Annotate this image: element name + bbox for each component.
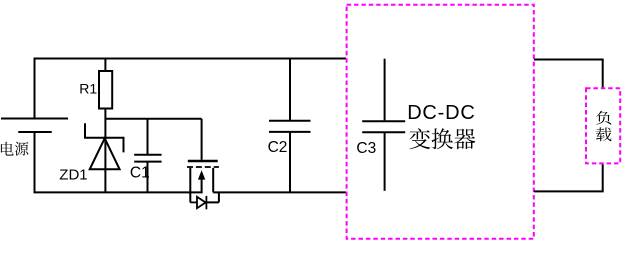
DC-DC converter box U1 [347,5,534,239]
zener diode ZD1 [84,123,125,169]
wire DC-DC output bottom [534,164,604,191]
svg-text:C2: C2 [268,139,288,156]
svg-text:DC-DC: DC-DC [407,102,475,124]
wire branch node to gate [105,118,201,120]
resistor R1 [99,59,112,193]
wire top rail [34,58,347,60]
wire bottom rail left [34,191,203,193]
battery BT 电源 [1,119,68,133]
wire battery top to rail [34,59,36,119]
svg-text:R1: R1 [79,80,97,96]
wire DC-DC output top [534,59,603,88]
capacitor C1 [134,119,161,193]
label 负载 [596,111,612,141]
capacitor C3 [362,59,405,191]
wire battery bottom [34,132,36,192]
svg-text:C3: C3 [356,140,376,157]
svg-text:C1: C1 [130,164,150,181]
label 电源 [1,142,29,156]
svg-text:ZD1: ZD1 [59,167,87,184]
load box 负载 [586,88,620,163]
label 变换器 [409,128,475,149]
wire bottom rail right [213,191,346,193]
transistor Q1 (MOSFET) [187,119,219,203]
capacitor C2 [269,59,311,193]
body diode D1 [190,192,219,209]
